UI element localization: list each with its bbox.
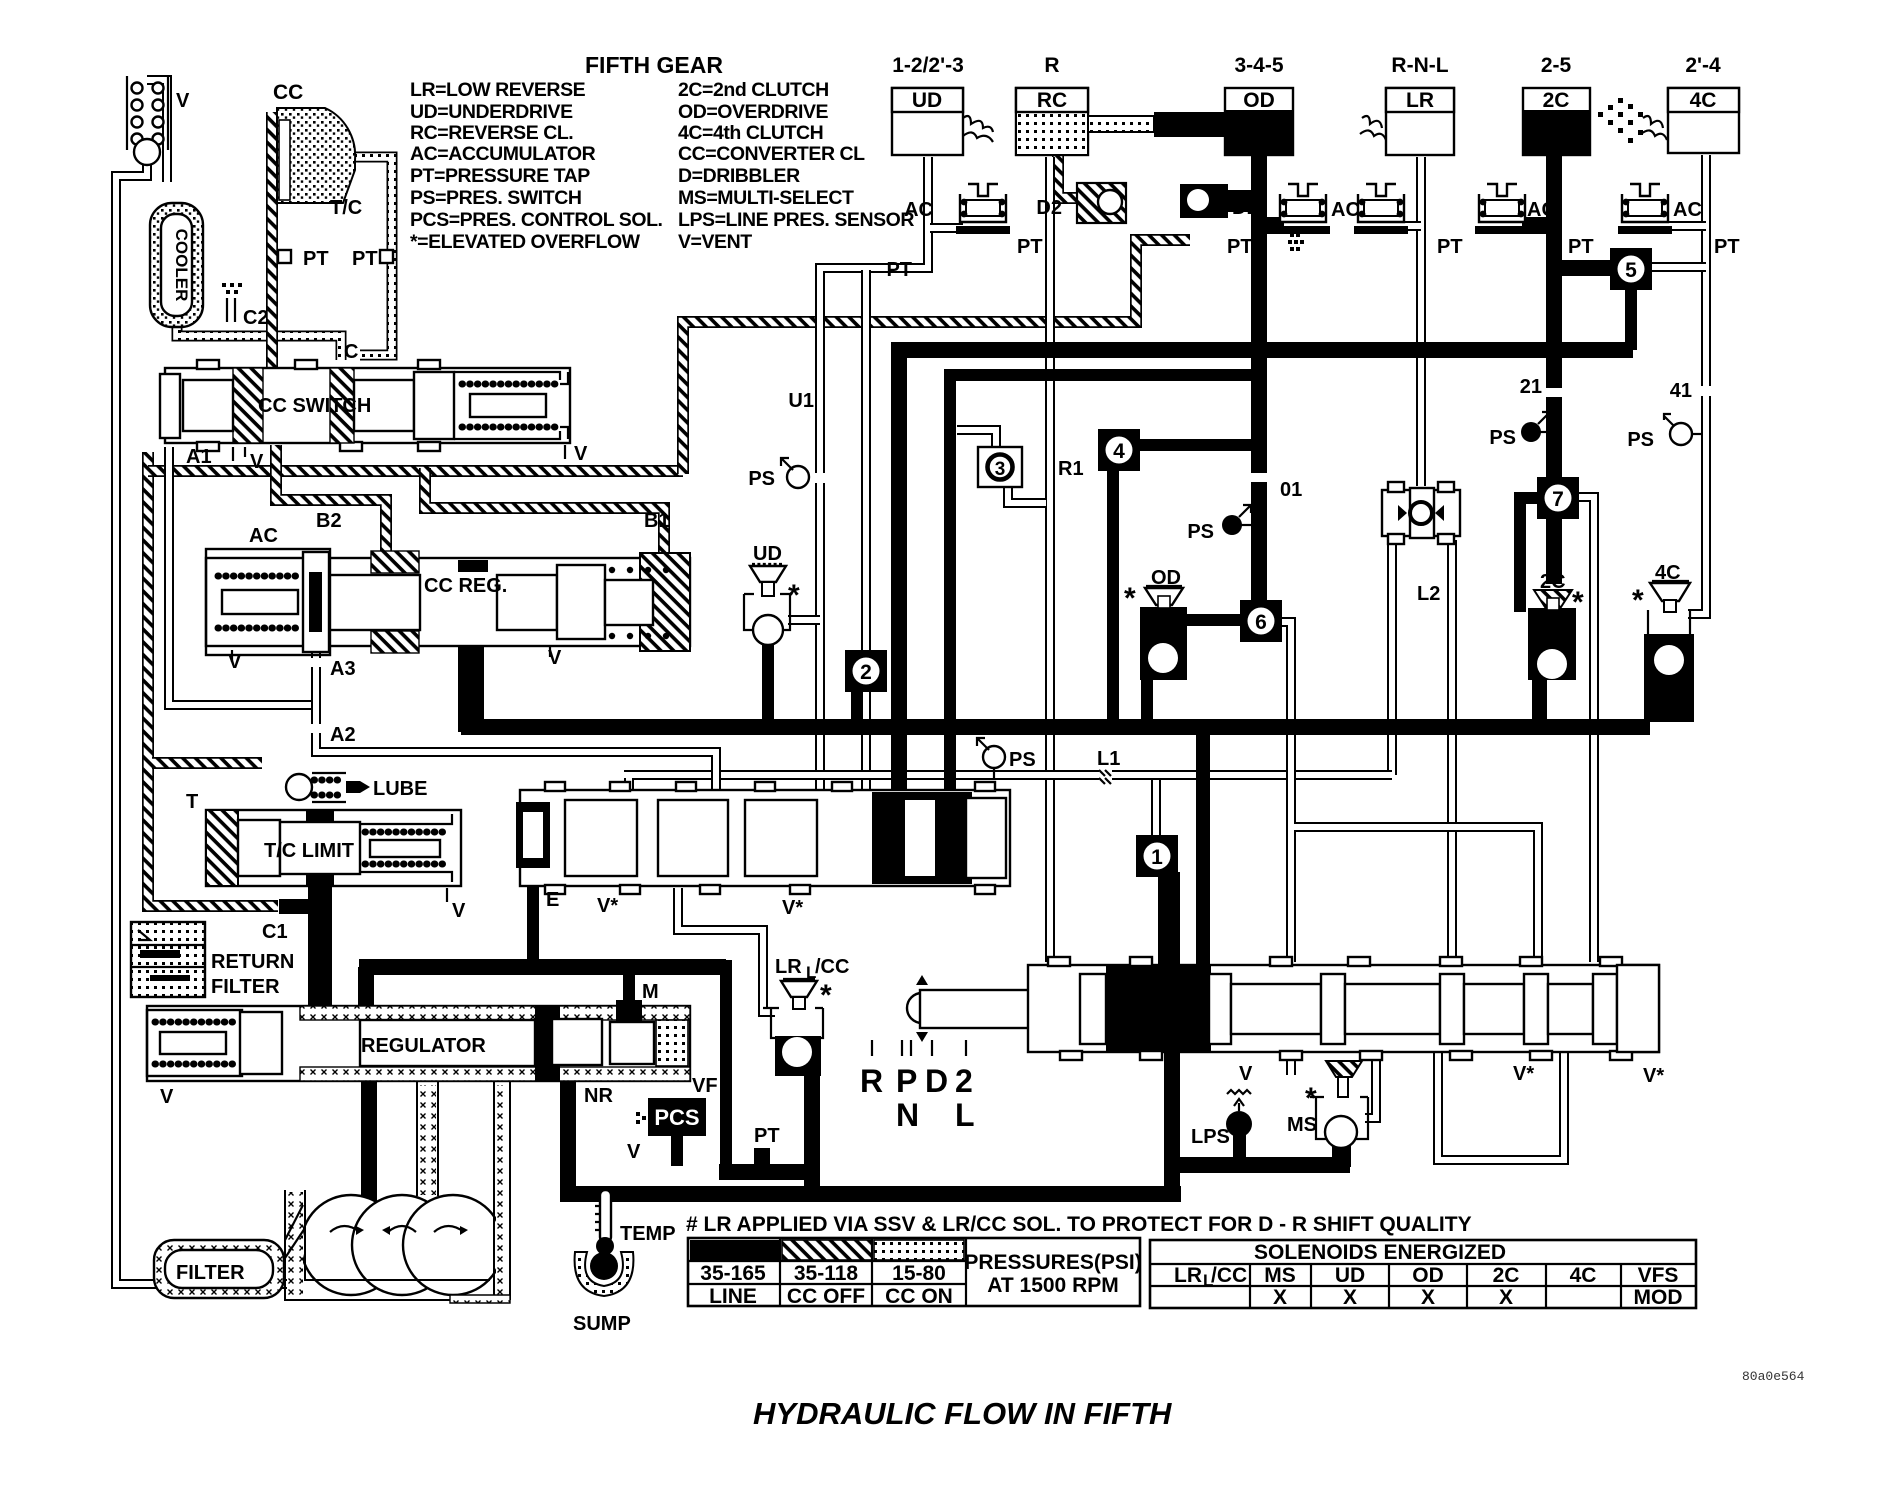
asterisks xyxy=(788,579,1644,1115)
svg-text:UD: UD xyxy=(1335,1264,1365,1287)
accumulator (4C column) xyxy=(1618,184,1672,234)
svg-text:A2: A2 xyxy=(330,724,356,746)
pressure switch PS (41 line) xyxy=(1664,414,1702,445)
pump assembly xyxy=(301,1195,503,1295)
wire: 4C accumulator tray link xyxy=(1650,221,1706,231)
svg-text:D2: D2 xyxy=(1036,197,1062,219)
wire: manual valve leg to bottom bus xyxy=(1164,1048,1180,1194)
svg-text:/CC: /CC xyxy=(815,956,849,978)
wire: RC to OD black link xyxy=(1154,112,1227,137)
RETURN FILTER xyxy=(131,922,205,997)
wire: B2 hatched branch into CC REG xyxy=(276,468,386,558)
wire: PT tick on PCS line xyxy=(754,1148,770,1165)
svg-text:LR: LR xyxy=(775,956,802,978)
wire: bottom bus C under LPS/MS xyxy=(1164,1157,1350,1173)
svg-text:X: X xyxy=(1499,1286,1513,1309)
svg-text:LR: LR xyxy=(1406,89,1434,112)
svg-text:*: * xyxy=(1632,584,1644,617)
svg-text:*: * xyxy=(1305,1082,1317,1115)
wire: R1 line from RC box down to manual valve xyxy=(1045,157,1055,962)
PCS solenoid xyxy=(636,1098,706,1136)
solenoid UD xyxy=(744,564,790,645)
wire: bottom bus B xyxy=(560,1186,1181,1202)
wire: UD solenoid leg to bus xyxy=(762,645,774,722)
solenoid MS xyxy=(1310,1061,1368,1148)
wire: UD clutch line down to PT manifold xyxy=(820,157,928,473)
converter PT tap right xyxy=(380,250,393,263)
svg-text:*: * xyxy=(820,979,832,1012)
wire: bus drop into manual valve xyxy=(1196,730,1210,970)
solenoid OD xyxy=(1140,586,1187,726)
svg-text:3-4-5: 3-4-5 xyxy=(1234,54,1283,77)
wire: node 7 line down to manual valve xyxy=(1578,497,1594,962)
wire: CC REG feed drop to main bus xyxy=(458,617,484,732)
wire: MS solenoid foot xyxy=(1332,1145,1351,1167)
svg-text:MS: MS xyxy=(1287,1114,1317,1136)
converter clutch cup xyxy=(277,108,355,203)
wire: upper line branch H2 with leg to S.S.V. xyxy=(950,375,1259,800)
svg-text:LPS: LPS xyxy=(1191,1126,1230,1148)
node 2 xyxy=(845,650,887,692)
svg-text:2-5: 2-5 xyxy=(1541,54,1572,77)
wire: node 5 link to 4C riser xyxy=(1652,262,1706,272)
CC SWITCH valve xyxy=(160,360,570,451)
svg-text:N: N xyxy=(896,1097,919,1133)
svg-text:AC: AC xyxy=(1527,199,1556,221)
clutch UD xyxy=(892,88,993,155)
LPS sensor xyxy=(1226,1090,1252,1137)
svg-text:V*: V* xyxy=(597,895,618,917)
wire: vent top bridge to cooler feed xyxy=(147,80,167,182)
svg-text:X: X xyxy=(1273,1286,1287,1309)
wire: OD accumulator link xyxy=(1262,217,1284,234)
svg-text:P: P xyxy=(896,1063,917,1099)
svg-text:M: M xyxy=(642,981,659,1003)
svg-text:V: V xyxy=(627,1141,641,1163)
svg-text:41: 41 xyxy=(1670,380,1692,402)
wire: node 4 leg to main bus xyxy=(1107,460,1119,722)
wire: upper line branch H1 with leg to S.S.V. xyxy=(899,350,1633,800)
svg-text:21: 21 xyxy=(1520,376,1542,398)
svg-text:PS: PS xyxy=(1187,521,1214,543)
svg-text:2C: 2C xyxy=(1540,571,1566,593)
CC REG vent ticks xyxy=(232,645,550,662)
svg-text:LR=LOW REVERSE: LR=LOW REVERSE xyxy=(410,79,586,101)
svg-text:AT 1500 RPM: AT 1500 RPM xyxy=(987,1274,1119,1297)
svg-text:V: V xyxy=(548,647,562,669)
svg-text:V: V xyxy=(574,443,588,465)
wire: regulator top line xyxy=(359,967,726,1010)
svg-text:CC REG.: CC REG. xyxy=(424,575,507,597)
CC SWITCH vent ticks xyxy=(233,445,565,461)
wire: U1 line PS to S.S.V. xyxy=(815,483,825,792)
solenoid 2C xyxy=(1528,584,1578,726)
svg-text:4C: 4C xyxy=(1655,562,1681,584)
svg-text:4C: 4C xyxy=(1690,89,1717,112)
svg-text:PT: PT xyxy=(1714,236,1740,258)
wire: hatched drop from RC box to dribbler D2 xyxy=(1058,156,1090,198)
svg-text:CC=CONVERTER CL: CC=CONVERTER CL xyxy=(678,143,865,165)
svg-text:7: 7 xyxy=(1552,488,1564,511)
pressure legend table xyxy=(688,1238,1142,1308)
wire: manual valve V port drop xyxy=(1286,1050,1296,1075)
accumulator (2C column) xyxy=(1475,184,1529,234)
wire: UD accumulator tray link xyxy=(930,223,963,233)
clutch OD xyxy=(1225,88,1293,155)
svg-text:MOD: MOD xyxy=(1634,1286,1683,1309)
wire: B1 hatched branch to CC REG right end xyxy=(425,468,664,560)
clutch LR xyxy=(1360,88,1454,155)
wire: converter chamber dotted wall xyxy=(350,157,392,355)
svg-text:PT: PT xyxy=(1017,236,1043,258)
wire: L2 line ball valve to manual valve xyxy=(1447,540,1457,962)
svg-text:E: E xyxy=(546,889,559,911)
svg-text:AC: AC xyxy=(249,525,278,547)
cooler xyxy=(150,203,203,327)
wire: node 5 leg to H1 xyxy=(1625,286,1637,350)
accumulator (LR column) xyxy=(1354,184,1408,234)
wire: NR leg regulator to bottom bus xyxy=(560,1078,576,1194)
wire: PCS output line xyxy=(719,1164,812,1180)
wire: 2C clutch riser lower xyxy=(1546,397,1562,612)
svg-text:PS: PS xyxy=(1627,429,1654,451)
svg-text:PT: PT xyxy=(352,248,378,270)
svg-text:CC: CC xyxy=(273,81,303,104)
shift gate ticks xyxy=(872,1040,966,1056)
svg-text:15-80: 15-80 xyxy=(892,1262,946,1285)
svg-text:4C: 4C xyxy=(1570,1264,1597,1287)
wire: CC hatched wall from converter to CC SWITCH xyxy=(266,112,278,368)
svg-text:PS=PRES. SWITCH: PS=PRES. SWITCH xyxy=(410,187,582,209)
svg-text:PT: PT xyxy=(754,1125,780,1147)
svg-text:L: L xyxy=(955,1097,975,1133)
wire: OD clutch riser xyxy=(1251,150,1267,610)
shift selector letters xyxy=(860,1063,975,1133)
wire: C1 line T/C LIMIT to regulator xyxy=(279,885,332,1006)
sump pickup hatched tubes xyxy=(285,1081,510,1303)
svg-text:VFS: VFS xyxy=(1638,1264,1679,1287)
solenoid LR/CC xyxy=(763,979,823,1076)
wire: node 7 branch to 2C solenoid xyxy=(1520,498,1545,612)
node 5 xyxy=(1610,248,1652,290)
svg-text:AC: AC xyxy=(904,199,933,221)
break marker 01 xyxy=(1247,473,1271,482)
pressure switch PS (21 line) xyxy=(1521,412,1550,442)
svg-text:4: 4 xyxy=(1113,440,1125,463)
svg-text:PT: PT xyxy=(1437,236,1463,258)
node 1 xyxy=(1136,835,1178,877)
wire: UD solenoid pilot link xyxy=(788,615,820,625)
svg-text:PT=PRESSURE TAP: PT=PRESSURE TAP xyxy=(410,165,590,187)
svg-text:VF: VF xyxy=(692,1075,718,1097)
svg-text:PS: PS xyxy=(748,468,775,490)
svg-text:MS: MS xyxy=(1264,1264,1296,1287)
wire: node 2 leg to bus xyxy=(851,690,863,722)
wire: 2C accumulator link xyxy=(1522,217,1550,234)
svg-text:35-165: 35-165 xyxy=(700,1262,766,1285)
pressure switch PS (OD line) xyxy=(1222,505,1253,535)
svg-text:C1: C1 xyxy=(262,921,288,943)
svg-text:V=VENT: V=VENT xyxy=(678,231,752,253)
svg-text:PS: PS xyxy=(1489,427,1516,449)
wire: M leg into regulator xyxy=(623,967,635,1014)
solenoid 4C xyxy=(1644,581,1694,722)
accumulator (UD column) xyxy=(956,184,1010,234)
svg-text:V: V xyxy=(176,90,190,112)
svg-text:NR: NR xyxy=(584,1085,613,1107)
svg-text:C: C xyxy=(344,341,358,363)
wire: LPS stem xyxy=(1233,1135,1246,1160)
svg-text:5: 5 xyxy=(1625,259,1637,282)
svg-text:RC=REVERSE CL.: RC=REVERSE CL. xyxy=(410,122,573,144)
svg-text:PT: PT xyxy=(303,248,329,270)
converter PT tap left xyxy=(278,250,291,263)
AC accumulator + CC REG valve xyxy=(206,549,690,655)
svg-text:R1: R1 xyxy=(1058,458,1084,480)
svg-text:RETURN: RETURN xyxy=(211,951,294,973)
svg-text:D=DRIBBLER: D=DRIBBLER xyxy=(678,165,800,187)
svg-text:3: 3 xyxy=(995,459,1006,480)
svg-text:PCS: PCS xyxy=(654,1105,699,1130)
svg-text:PT: PT xyxy=(886,259,912,281)
FILTER xyxy=(154,1205,305,1298)
svg-text:35-118: 35-118 xyxy=(794,1262,859,1285)
svg-text:OD=OVERDRIVE: OD=OVERDRIVE xyxy=(678,101,829,123)
wire: hatched line T/C LIMIT feed xyxy=(152,757,262,769)
SUMP xyxy=(575,1252,634,1296)
svg-text:FILTER: FILTER xyxy=(211,976,280,998)
wire: LR/CC solenoid column to bottom bus xyxy=(804,1070,820,1194)
svg-text:PT: PT xyxy=(1227,236,1253,258)
svg-text:U1: U1 xyxy=(788,390,814,412)
svg-text:LINE: LINE xyxy=(709,1285,757,1308)
svg-text:T/C LIMIT: T/C LIMIT xyxy=(264,840,354,862)
svg-text:B2: B2 xyxy=(316,510,342,532)
node 6 xyxy=(1240,600,1282,642)
wire: PCS solenoid leg xyxy=(671,1132,683,1166)
svg-text:T: T xyxy=(186,791,198,813)
svg-text:2C=2nd CLUTCH: 2C=2nd CLUTCH xyxy=(678,79,829,101)
svg-text:RC: RC xyxy=(1037,89,1067,112)
wire: L1 pressure sensing line xyxy=(624,775,1392,794)
svg-text:OD: OD xyxy=(1151,567,1181,589)
svg-text:V: V xyxy=(228,651,242,673)
svg-text:AC: AC xyxy=(1331,199,1360,221)
svg-text:LPS=LINE PRES. SENSOR: LPS=LINE PRES. SENSOR xyxy=(678,209,914,231)
vent V ladder top-left xyxy=(127,76,168,165)
svg-text:R: R xyxy=(860,1063,883,1099)
svg-text:A3: A3 xyxy=(330,658,356,680)
dribbler D2 xyxy=(1077,183,1126,223)
svg-text:V*: V* xyxy=(1643,1065,1664,1087)
svg-text:UD: UD xyxy=(753,543,782,565)
wire: second drop to S.S.V. xyxy=(861,270,871,792)
svg-text:V: V xyxy=(1239,1063,1253,1085)
svg-text:X: X xyxy=(1421,1286,1435,1309)
svg-text:COOLER: COOLER xyxy=(172,229,191,302)
pressure switch PS (L1 line) xyxy=(977,738,1005,768)
wire: hatched main line under CC SWITCH xyxy=(148,465,683,477)
break marker A2 xyxy=(309,724,323,733)
svg-text:R-N-L: R-N-L xyxy=(1391,54,1448,77)
svg-text:1: 1 xyxy=(1151,846,1163,869)
svg-text:OD: OD xyxy=(1243,89,1275,112)
wire: A1 hatched line down left side to return filter xyxy=(148,452,278,906)
wire: PS stub to L1 xyxy=(993,768,995,778)
svg-text:REGULATOR: REGULATOR xyxy=(361,1035,486,1057)
svg-text:PCS=PRES. CONTROL SOL.: PCS=PRES. CONTROL SOL. xyxy=(410,209,663,231)
svg-text:D1: D1 xyxy=(1232,197,1258,219)
svg-text:*=ELEVATED OVERFLOW: *=ELEVATED OVERFLOW xyxy=(410,231,641,253)
node 4 xyxy=(1098,429,1140,471)
wire: ball valve left leg to L1 xyxy=(1387,540,1397,775)
clutch RC xyxy=(1016,88,1154,155)
svg-text:V*: V* xyxy=(1513,1063,1534,1085)
wire: node 6 line down and across xyxy=(1282,622,1538,962)
svg-text:2C: 2C xyxy=(1543,89,1570,112)
wire: hatched riser CC SWITCH to B-line xyxy=(270,445,282,471)
wire: box1 leg into manual valve xyxy=(1158,872,1180,972)
svg-text:FIFTH GEAR: FIFTH GEAR xyxy=(585,52,723,78)
svg-text:/CC: /CC xyxy=(1211,1264,1247,1287)
wire: OD solenoid link to node 6 xyxy=(1185,614,1245,626)
C2 vent valve xyxy=(222,283,242,322)
wire: left outer vent loop (thin tube) xyxy=(116,160,300,1284)
svg-text:LUBE: LUBE xyxy=(373,778,427,800)
wire: 4C riser elbow into 4C solenoid xyxy=(1688,600,1706,614)
svg-text:OD: OD xyxy=(1412,1264,1444,1287)
wire: right leg down from regulator line xyxy=(720,960,732,1172)
svg-text:D: D xyxy=(925,1063,948,1099)
wire: node 4 link to OD riser xyxy=(1138,439,1255,451)
svg-text:CC SWITCH: CC SWITCH xyxy=(258,395,371,417)
wire: 2C clutch riser upper xyxy=(1546,150,1562,388)
svg-text:UD=UNDERDRIVE: UD=UNDERDRIVE xyxy=(410,101,573,123)
T/C LIMIT valve xyxy=(206,810,461,886)
wire: E leg from S.S.V. xyxy=(527,882,539,960)
svg-text:CC ON: CC ON xyxy=(885,1285,953,1308)
wire: A1 spool line from CC SWITCH to A-line xyxy=(169,447,316,705)
svg-text:1-2/2'-3: 1-2/2'-3 xyxy=(892,54,964,77)
svg-text:UD: UD xyxy=(912,89,942,112)
break marker A3 xyxy=(309,658,323,667)
svg-text:# LR APPLIED VIA SSV & LR/CC S: # LR APPLIED VIA SSV & LR/CC SOL. TO PRO… xyxy=(686,1213,1472,1236)
svg-text:HYDRAULIC FLOW IN FIFTH: HYDRAULIC FLOW IN FIFTH xyxy=(753,1396,1172,1431)
LUBE valve xyxy=(286,773,370,802)
wire: V* loop under manual valve xyxy=(1438,1050,1564,1160)
node 7 xyxy=(1537,477,1579,519)
svg-text:V: V xyxy=(250,451,264,473)
TEMP thermometer xyxy=(595,1190,614,1255)
node 3 xyxy=(978,447,1022,487)
svg-text:AC=ACCUMULATOR: AC=ACCUMULATOR xyxy=(410,143,596,165)
wire: LR clutch riser to ball valve xyxy=(1416,157,1426,486)
svg-text:PRESSURES(PSI): PRESSURES(PSI) xyxy=(964,1251,1141,1274)
wire: cooler outlet dotted line to C2 and converter xyxy=(177,318,341,360)
wire: node 1 tap from L1 xyxy=(1151,780,1161,840)
svg-text:PT: PT xyxy=(1568,236,1594,258)
svg-text:FILTER: FILTER xyxy=(176,1262,245,1284)
wire: node 3 lower link xyxy=(1008,486,1046,503)
svg-text:L2: L2 xyxy=(1417,583,1440,605)
svg-text:LR: LR xyxy=(1174,1264,1202,1287)
svg-text:2: 2 xyxy=(955,1063,973,1099)
svg-text:V: V xyxy=(160,1086,174,1108)
wire: A3/A2 line from accumulator to S.S.V. xyxy=(316,645,716,790)
wire: LR/CC vent line to S.S.V. xyxy=(678,888,775,1012)
dribbler D1 xyxy=(1180,184,1304,251)
svg-text:*: * xyxy=(1124,582,1136,615)
svg-text:01: 01 xyxy=(1280,479,1302,501)
svg-text:C2: C2 xyxy=(243,307,269,329)
svg-text:4C=4th CLUTCH: 4C=4th CLUTCH xyxy=(678,122,823,144)
svg-text:T/C: T/C xyxy=(330,197,362,219)
svg-text:V: V xyxy=(452,900,466,922)
solenoids energized table xyxy=(1150,1240,1696,1309)
accumulator (OD column) xyxy=(1276,184,1330,234)
svg-text:*: * xyxy=(1572,586,1584,619)
svg-text:SOLENOIDS ENERGIZED: SOLENOIDS ENERGIZED xyxy=(1254,1241,1506,1264)
svg-text:A1: A1 xyxy=(186,446,212,468)
svg-text:X: X xyxy=(1343,1286,1357,1309)
wire: 4C clutch riser xyxy=(1701,155,1711,608)
wire: node 5 link from 2C riser xyxy=(1550,260,1615,276)
svg-text:6: 6 xyxy=(1255,611,1267,634)
svg-text:PS: PS xyxy=(1009,749,1036,771)
svg-text:R: R xyxy=(1044,54,1059,77)
wire: hatched riser to converter-clutch line xyxy=(683,240,1190,474)
svg-text:*: * xyxy=(788,579,800,612)
wire: MS valve link to manual valve xyxy=(1365,1050,1376,1118)
break marker L1 xyxy=(1099,766,1112,784)
svg-text:B1: B1 xyxy=(644,510,670,532)
svg-text:CC OFF: CC OFF xyxy=(787,1285,865,1308)
wire: regulator to pump feed xyxy=(361,1078,377,1206)
clutch 4C xyxy=(1641,88,1739,153)
svg-text:2C: 2C xyxy=(1493,1264,1520,1287)
svg-text:80a0e564: 80a0e564 xyxy=(1742,1369,1805,1384)
svg-text:SUMP: SUMP xyxy=(573,1313,631,1335)
REGULATOR valve xyxy=(147,1000,690,1081)
pressure switch PS (UD line) xyxy=(781,458,809,488)
clutch 2C xyxy=(1523,88,1643,155)
svg-text:TEMP: TEMP xyxy=(620,1223,676,1245)
wire: OD riser D1 link xyxy=(1225,190,1255,212)
wire: LR accumulator tray link xyxy=(1400,221,1421,231)
T/C LIMIT vent tick xyxy=(446,888,448,902)
wire: main line pressure bus xyxy=(461,719,1650,735)
svg-text:MS=MULTI-SELECT: MS=MULTI-SELECT xyxy=(678,187,854,209)
svg-text:2'-4: 2'-4 xyxy=(1685,54,1721,77)
svg-text:2: 2 xyxy=(860,661,872,684)
svg-text:AC: AC xyxy=(1673,199,1702,221)
svg-text:V*: V* xyxy=(782,897,803,919)
ball check valve (LR) xyxy=(1382,482,1460,544)
wire: node 3 tap to R1 line xyxy=(957,430,996,447)
